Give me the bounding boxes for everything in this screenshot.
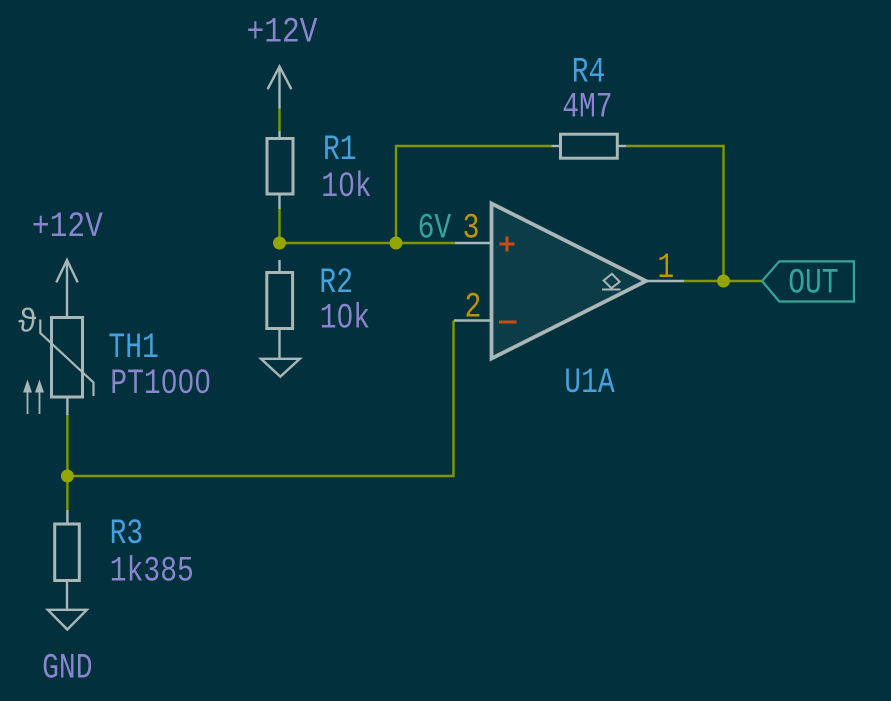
svg-text:ϑ: ϑ [18, 302, 36, 339]
svg-text:6V: 6V [418, 209, 452, 249]
svg-text:TH1: TH1 [108, 328, 158, 368]
svg-text:PT1000: PT1000 [110, 364, 211, 404]
svg-text:3: 3 [463, 209, 480, 249]
svg-text:U1A: U1A [564, 363, 614, 403]
svg-text:R1: R1 [323, 130, 357, 170]
svg-text:+12V: +12V [32, 207, 103, 247]
svg-text:R2: R2 [319, 263, 353, 303]
svg-text:GND: GND [42, 649, 92, 689]
svg-text:1k385: 1k385 [110, 552, 194, 592]
svg-text:R3: R3 [110, 514, 144, 554]
svg-text:R4: R4 [572, 53, 606, 93]
svg-text:4M7: 4M7 [562, 88, 612, 128]
svg-text:2: 2 [465, 288, 482, 328]
svg-text:OUT: OUT [788, 264, 838, 304]
svg-text:1: 1 [657, 248, 674, 288]
svg-text:+12V: +12V [247, 13, 318, 53]
